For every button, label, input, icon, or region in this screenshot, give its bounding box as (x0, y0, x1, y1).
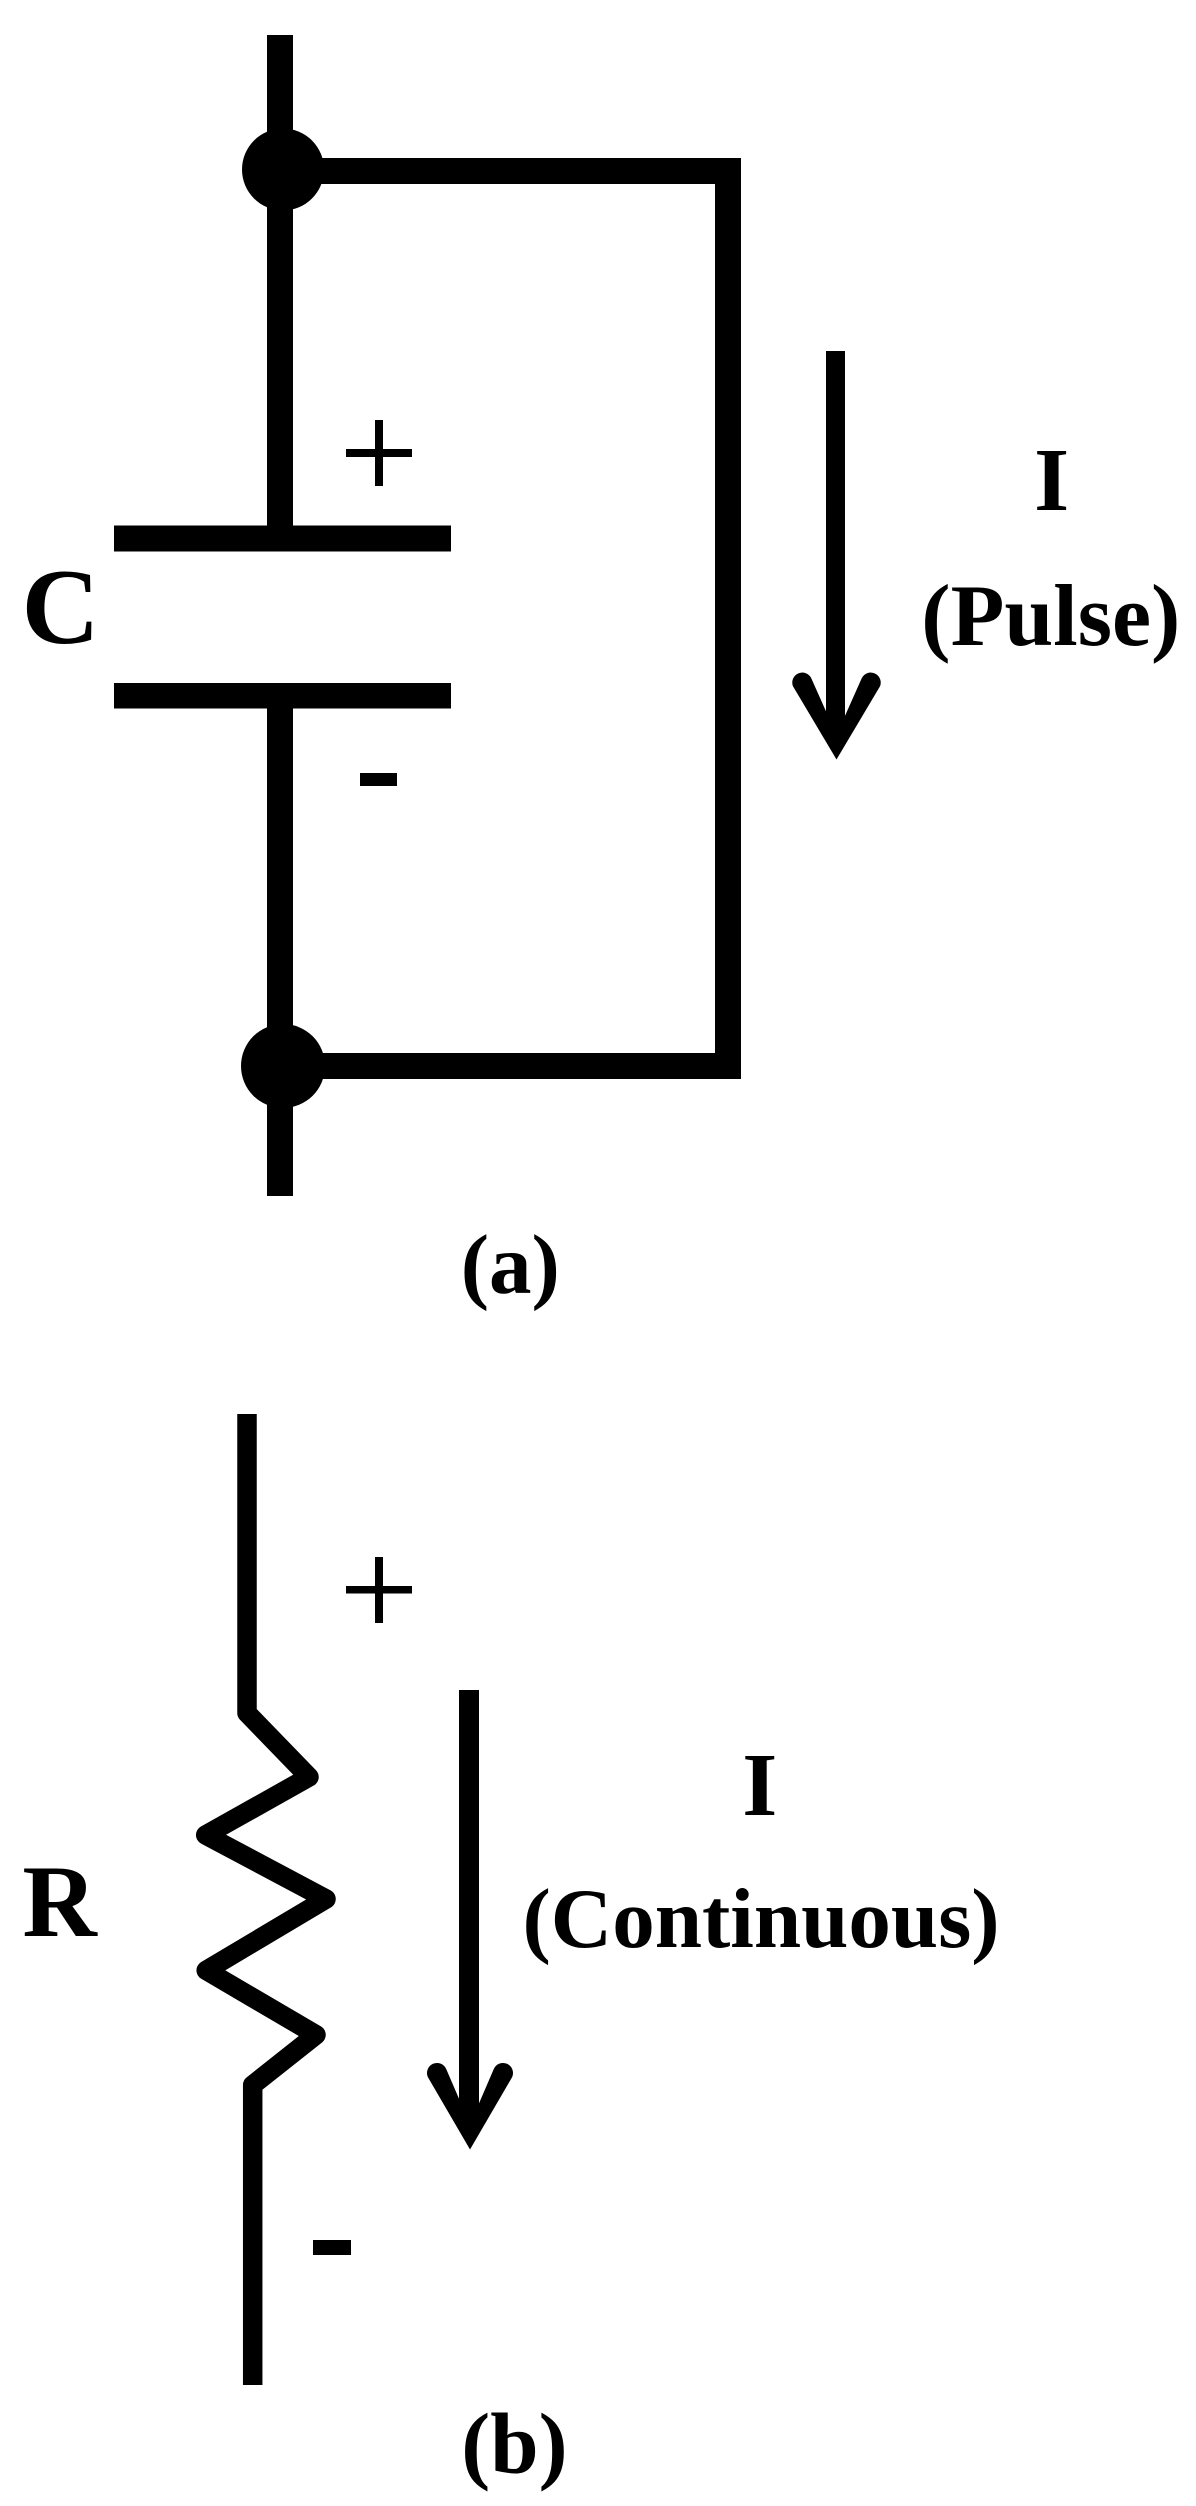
minus sign (a) (360, 773, 397, 786)
label (a) (461, 1223, 560, 1308)
minus sign (b) (313, 2240, 351, 2255)
wire bottom stub (a) (267, 1066, 293, 1196)
current arrow I pulse head (a) (792, 673, 880, 760)
node top junction dot (a) (242, 129, 324, 211)
wire right vertical (a) (715, 158, 741, 1079)
wire top horizontal (a) (283, 158, 741, 184)
wire top stub (b) / resistor R zigzag / wire bottom stub (b) (206, 1414, 326, 2385)
capacitor C top plate (114, 526, 451, 552)
current arrow I pulse shaft (a) (826, 351, 845, 740)
wire capacitor bottom lead (267, 708, 293, 1066)
label I current (b) (742, 1741, 777, 1831)
label (Pulse) (921, 573, 1180, 661)
capacitor C bottom plate (114, 683, 451, 709)
wire top stub (a) (267, 35, 293, 175)
plus sign (a) (346, 449, 412, 457)
current arrow I continuous head (b) (427, 2063, 513, 2150)
label R resistor (22, 1851, 96, 1954)
wire bottom horizontal (a) (283, 1053, 741, 1079)
wire capacitor top lead (267, 169, 293, 526)
label (Continuous) (523, 1877, 1000, 1962)
label C capacitor (22, 554, 100, 662)
node bottom junction dot (a) (241, 1024, 325, 1108)
plus sign (b) (346, 1586, 412, 1594)
label I current (a) (1034, 436, 1069, 526)
label (b) (461, 2400, 567, 2487)
current arrow I continuous shaft (b) (459, 1690, 479, 2129)
